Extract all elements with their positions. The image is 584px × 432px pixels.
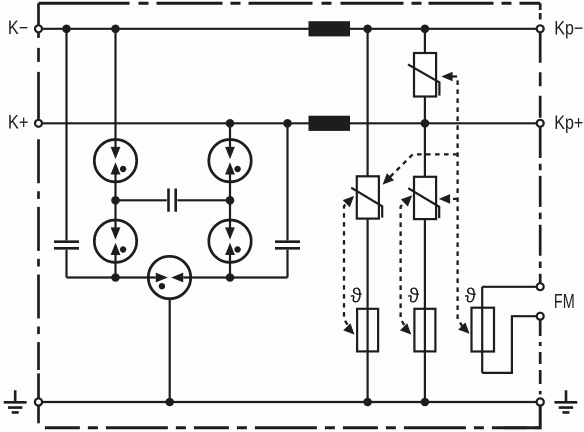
varistor RV3: [414, 177, 436, 219]
gas discharge tube F4 (node B to GDT bus): [209, 220, 251, 262]
terminal K−: [35, 25, 42, 32]
junction K+ / GDT column 2: [226, 119, 235, 128]
enclosure boundary bottom-right corner: [504, 406, 540, 428]
junction K− / RV2 column: [363, 25, 372, 34]
svg-text:Kp−: Kp−: [554, 18, 583, 39]
thermal disconnector ϑ3 (fuse box for remote signalling): [472, 308, 495, 352]
arrow into ϑ1: [343, 323, 354, 334]
junction K− / RV1 column: [421, 25, 430, 34]
arrow into ϑ3: [458, 322, 469, 333]
varistor RV1 (between K− and K+): [424, 29, 426, 53]
enclosure boundary bottom (dash-dot frame): [45, 426, 540, 429]
ground symbol left: [4, 390, 27, 412]
varistor RV2 column: wire from K− bus crossing K+ bus: [367, 29, 369, 177]
junction ground bus / F5 electrode: [165, 398, 174, 407]
wire: capacitor C1 column from K− bus down to GDT bus: [65, 29, 67, 240]
terminal FM contact 2: [537, 313, 544, 320]
terminal ground left: [35, 398, 42, 405]
varistor RV2: [357, 176, 379, 218]
varistor RV3 column: wire from K+ bus: [424, 123, 426, 177]
thermal linkage dashed line to ϑ3 / RV1 / RV2 / RV3: [453, 77, 466, 331]
svg-text:Kp+: Kp+: [554, 113, 583, 134]
wire: GDT bus (right segment): [183, 276, 287, 278]
wire: GDT column 2 from K+ bus through F2 and F4 to GDT bus: [229, 123, 231, 147]
enclosure boundary right edge (dash-dot): [539, 3, 542, 10]
arrow into RV3 lower left: [401, 195, 412, 206]
thermal disconnector ϑ2 (fuse box): [414, 309, 435, 352]
terminal Kp+: [537, 120, 544, 127]
svg-text:FM: FM: [554, 290, 575, 313]
capacitor C2 (coupling capacitor between node A and node B): [169, 189, 176, 212]
junction K+ / C3 column: [283, 119, 292, 128]
gas discharge tube F3 (node A to GDT bus): [94, 220, 136, 262]
terminal Kp−: [537, 25, 544, 32]
svg-text:K+: K+: [8, 113, 29, 134]
wire: GDT bus (left segment): [67, 276, 156, 278]
arrow into RV1 right side: [441, 72, 452, 82]
thermal linkage dashed line to ϑ1: [344, 77, 465, 331]
svg-text:ϑ: ϑ: [351, 284, 363, 307]
wire: ϑ3 bottom loop to FM contact 2: [482, 316, 537, 373]
junction node B: [226, 196, 235, 205]
gas discharge tube F1 (K− to midpoint node A): [94, 140, 136, 182]
terminal ground right: [537, 398, 544, 405]
wire: equipotential ground bus: [42, 401, 537, 403]
capacitor C3: [275, 242, 300, 249]
junction K− / GDT column 1: [111, 25, 120, 34]
junction node A: [111, 196, 120, 205]
thermal disconnector ϑ1 (fuse box): [357, 309, 378, 352]
terminal FM contact 1: [537, 283, 544, 290]
wire: RV2 to thermal fuse ϑ1: [367, 219, 369, 402]
junction ground bus / ϑ2: [421, 398, 430, 407]
wire: node A to node B coupling line: [116, 199, 231, 201]
wire: thermal fuse ϑ3 top to FM contact 1: [482, 287, 537, 373]
inductor L2 (decoupling choke in K+ line): [309, 116, 351, 131]
enclosure boundary left edge (dash-dot): [37, 3, 40, 25]
enclosure boundary top (dash-dot frame): [39, 2, 541, 5]
svg-text:ϑ: ϑ: [465, 284, 477, 307]
inductor L1 (decoupling choke in K− line): [309, 21, 351, 36]
arrow into RV2 lower left: [343, 196, 354, 207]
svg-text:ϑ: ϑ: [408, 284, 420, 307]
gas discharge tube F2 (K+ to midpoint node B): [209, 140, 251, 182]
arrow into RV2 upper right: [383, 173, 395, 184]
wire: F5 center electrode down to ground bus: [169, 299, 171, 402]
ground symbol right: [555, 390, 578, 412]
gas discharge tube F5 (three-electrode, in GDT bus, to ground): [148, 256, 190, 298]
terminal K+: [35, 120, 42, 127]
svg-text:K−: K−: [8, 18, 28, 39]
arrow into ϑ2: [400, 323, 411, 334]
junction ground bus / ϑ1: [363, 398, 372, 407]
junction GDT bus / column 1: [111, 273, 120, 282]
junction K− / C1 column: [62, 25, 71, 34]
arrowheads of thermal linkage: [343, 72, 470, 335]
junction GDT bus / column 2: [226, 273, 235, 282]
capacitor C1: [54, 242, 79, 249]
wire: GDT column 1 from K− bus through F1 and F3 to GDT bus: [114, 29, 116, 147]
arrow into RV3 right side: [439, 194, 450, 204]
wire: K− bus from terminal K− to terminal Kp−: [42, 28, 537, 30]
wire: RV3 to thermal fuse ϑ2: [424, 219, 426, 402]
wire: capacitor C3 column from K+ bus down to GDT bus: [286, 123, 288, 240]
junction K+ / RV1 / RV3 column: [421, 119, 430, 128]
wire: K+ bus from terminal K+ to terminal Kp+: [42, 122, 537, 124]
thermal linkage dashed line to ϑ2: [401, 199, 409, 331]
